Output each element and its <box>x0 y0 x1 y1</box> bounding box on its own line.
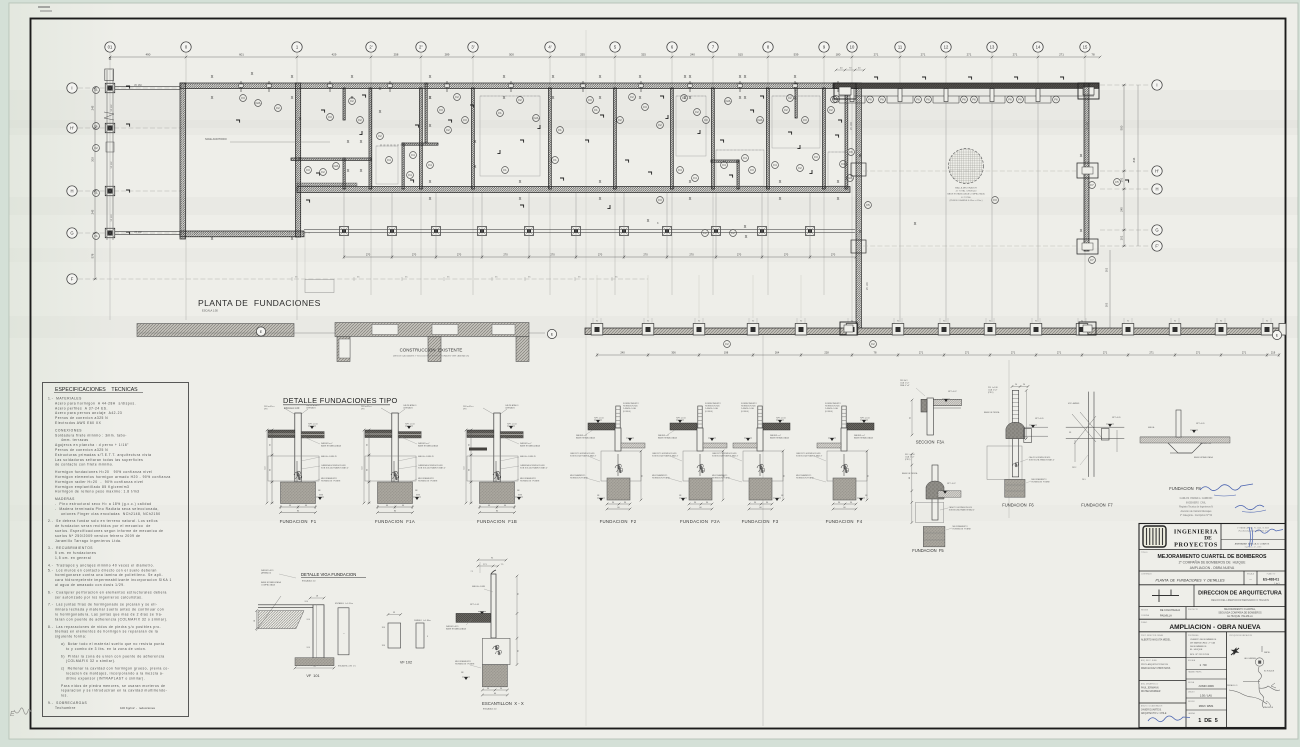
svg-text:NTN: NTN <box>319 495 324 497</box>
svg-text:270: 270 <box>366 253 371 257</box>
svg-text:(DOBLE): (DOBLE) <box>705 411 713 413</box>
svg-text:CANOSTO HORMIGON H20: CANOSTO HORMIGON H20 <box>796 452 820 455</box>
svg-text:BASE ESTABILIZADA: BASE ESTABILIZADA <box>261 581 282 584</box>
svg-text:SOB BOLSA TRAMOS MAX 4": SOB BOLSA TRAMOS MAX 4" <box>796 455 822 458</box>
svg-text:8.- Las reparaciones de nidos: 8.- Las reparaciones de nidos de piedra … <box>48 625 161 629</box>
svg-text:240: 240 <box>690 53 695 57</box>
svg-text:X: X <box>837 196 840 201</box>
svg-text:MEJORAMIENTO: MEJORAMIENTO <box>652 474 668 477</box>
svg-text:CERRADO: CERRADO <box>505 407 515 410</box>
svg-text:NPT -0.07: NPT -0.07 <box>947 483 956 485</box>
svg-text:b) Pintar la zona de union co: b) Pintar la zona de union con puente de… <box>61 654 165 658</box>
svg-text:CALZE ATADO: CALZE ATADO <box>505 404 519 407</box>
svg-text:ES-488-01: ES-488-01 <box>1263 578 1279 582</box>
svg-text:INGENIERO CIVIL: INGENIERO CIVIL <box>1186 502 1207 504</box>
svg-text:NPT+0.10: NPT+0.10 <box>308 424 318 426</box>
svg-text:VF 162: VF 162 <box>111 161 113 169</box>
svg-text:COMPACTADA: COMPACTADA <box>261 584 275 587</box>
svg-text:BASE DE PEDRA: BASE DE PEDRA <box>902 472 918 475</box>
svg-text:1* Categoria - Inscripcion N*: 1* Categoria - Inscripcion N* 52 <box>1180 514 1213 517</box>
svg-text:228: 228 <box>824 351 829 355</box>
svg-text:X: X <box>519 196 522 201</box>
svg-text:(PUEDE USARSE 0.05m x 4.3m.): (PUEDE USARSE 0.05m x 4.3m.) <box>949 199 982 202</box>
svg-text:CANOSTO HORMIGON H20: CANOSTO HORMIGON H20 <box>652 452 676 455</box>
svg-text:CONEXIONES: CONEXIONES <box>55 428 82 432</box>
svg-text:F4: F4 <box>408 173 412 177</box>
svg-text:X: X <box>1080 153 1083 158</box>
svg-text:271: 271 <box>965 351 970 355</box>
svg-text:DE BOMBEROS: DE BOMBEROS <box>1190 646 1207 648</box>
svg-text:(ARMADO): (ARMADO) <box>261 572 271 575</box>
svg-text:1* RAMA CAPITAL FL 2546 - N 4: 1* RAMA CAPITAL FL 2546 - N 4568 <box>1237 527 1269 530</box>
svg-text:F2: F2 <box>618 118 622 122</box>
svg-text:X: X <box>291 74 294 79</box>
svg-text:I: I <box>1156 83 1157 88</box>
svg-text:26.5: 26.5 <box>1082 479 1086 481</box>
svg-text:270: 270 <box>457 253 462 257</box>
svg-text:X: X <box>837 179 840 184</box>
svg-text:X: X <box>291 236 294 241</box>
svg-text:Techumbre: Techumbre <box>55 706 76 710</box>
svg-text:FUNDACION F5: FUNDACION F5 <box>912 548 944 553</box>
svg-text:F2: F2 <box>321 170 325 174</box>
svg-text:X: X <box>211 236 214 241</box>
svg-text:FUNDACION F1: FUNDACION F1 <box>280 519 317 524</box>
svg-text:PLANTA DE FUNDACIONES: PLANTA DE FUNDACIONES <box>198 298 321 308</box>
svg-text:hormigonarse contra una lamina: hormigonarse contra una lamina de poliet… <box>55 573 163 577</box>
svg-text:H': H' <box>70 126 74 131</box>
svg-text:F2: F2 <box>276 106 280 110</box>
svg-text:2': 2' <box>369 45 372 50</box>
svg-text:270: 270 <box>689 253 694 257</box>
svg-text:X: X <box>351 74 354 79</box>
svg-text:de contacto con filete minimo.: de contacto con filete minimo. <box>55 463 114 467</box>
svg-text:F6: F6 <box>972 98 976 102</box>
svg-text:F8: F8 <box>1069 432 1071 434</box>
svg-text:Hormigon emplantillado 85 Kg/c: Hormigon emplantillado 85 Kg/cem/m3 <box>55 485 129 489</box>
svg-text:ESCALA: ESCALA <box>1247 573 1255 576</box>
svg-text:blemas en elementos de hormigo: blemas en elementos de hormigon se repar… <box>55 630 158 634</box>
svg-text:F4: F4 <box>678 168 682 172</box>
svg-text:ESCALA 1:10: ESCALA 1:10 <box>302 580 316 583</box>
svg-text:4# TOTAL: 4# TOTAL <box>961 196 972 199</box>
svg-text:PLANO N*: PLANO N* <box>1267 573 1276 576</box>
svg-text:DIBUJO: DIBUJO <box>1188 692 1195 694</box>
svg-text:270: 270 <box>784 253 789 257</box>
svg-text:198: 198 <box>724 351 729 355</box>
svg-text:NPT+0.10: NPT+0.10 <box>860 418 870 420</box>
svg-text:HORMIGON POBRE: HORMIGON POBRE <box>652 478 670 480</box>
svg-text:BASE ESTABILIZADA: BASE ESTABILIZADA <box>446 628 467 631</box>
svg-text:DIRECCION DE ARQUITECTURA: DIRECCION DE ARQUITECTURA <box>1198 591 1282 597</box>
svg-text:F2: F2 <box>829 108 833 112</box>
svg-text:RADIER e=7: RADIER e=7 <box>658 434 669 437</box>
svg-text:X: X <box>745 234 748 239</box>
svg-text:BASE ESTABILIZADA: BASE ESTABILIZADA <box>418 445 439 448</box>
svg-text:Hormigon elementos hormigon ar: Hormigon elementos hormigon armado H20 -… <box>55 475 171 479</box>
svg-text:F2: F2 <box>630 95 634 99</box>
svg-text:F2: F2 <box>788 96 792 100</box>
svg-text:ARQ. SECC. ELAB.: ARQ. SECC. ELAB. <box>1141 659 1157 662</box>
svg-text:suelos. Especificaciones segun: suelos. Especificaciones segun informe d… <box>55 529 163 533</box>
svg-text:X: X <box>794 74 797 79</box>
svg-text:F1: F1 <box>94 124 98 128</box>
svg-text:78: 78 <box>1091 53 1095 57</box>
svg-text:DIMBEO L=1.80m: DIMBEO L=1.80m <box>414 620 431 622</box>
svg-text:SOB BOLSA TRAMOS MAX 4": SOB BOLSA TRAMOS MAX 4" <box>949 509 975 512</box>
svg-text:MALLA 4-08B-15: MALLA 4-08B-15 <box>418 455 435 458</box>
svg-text:5 cm. en fundaciones: 5 cm. en fundaciones <box>55 551 96 555</box>
svg-text:LAS CABRAS: LAS CABRAS <box>1244 657 1257 660</box>
svg-text:Acero para pernos anclaje A42: Acero para pernos anclaje A42-23 <box>55 411 122 415</box>
svg-text:TITULO: TITULO <box>1141 552 1148 554</box>
svg-text:F4: F4 <box>387 158 391 162</box>
svg-text:M12 AMBES: M12 AMBES <box>1068 402 1080 405</box>
svg-text:2'': 2'' <box>419 45 423 50</box>
svg-text:Ingenieria 22 - 2013: Ingenieria 22 - 2013 <box>1245 547 1261 549</box>
svg-text:X: X <box>599 196 602 201</box>
svg-text:HORMIGON POBRE: HORMIGON POBRE <box>418 481 438 483</box>
svg-text:271: 271 <box>1011 351 1016 355</box>
svg-text:264: 264 <box>775 351 780 355</box>
svg-text:H: H <box>70 189 73 194</box>
svg-text:X: X <box>360 168 363 173</box>
svg-text:DETALLE VIGA FUNDACION: DETALLE VIGA FUNDACION <box>301 572 356 577</box>
svg-text:F2: F2 <box>725 342 729 346</box>
svg-text:8: 8 <box>427 636 428 638</box>
svg-text:VF 103: VF 103 <box>1086 122 1089 130</box>
svg-text:F2: F2 <box>703 231 707 235</box>
svg-text:F2: F2 <box>94 146 98 150</box>
svg-text:F4: F4 <box>773 163 777 167</box>
svg-text:(PRO): (PRO) <box>988 392 994 394</box>
svg-text:AMPLIACION - OBRA NUEVA: AMPLIACION - OBRA NUEVA <box>1169 624 1260 631</box>
svg-text:X: X <box>914 221 917 226</box>
svg-text:(Fax) Antofagasta(s) Telf 204: (Fax) Antofagasta(s) Telf 2045 321 <box>1238 530 1268 533</box>
svg-text:X: X <box>599 74 602 79</box>
svg-text:F1: F1 <box>503 168 507 172</box>
svg-text:F2: F2 <box>871 342 875 346</box>
svg-text:lo hormigonadura. Las juntas q: lo hormigonadura. Las juntas que mas de … <box>55 613 163 617</box>
svg-text:- Madera terminada Pino Radia: - Madera terminada Pino Radiata seca sel… <box>55 507 159 511</box>
svg-text:F1: F1 <box>94 88 98 92</box>
svg-text:271: 271 <box>1059 53 1064 57</box>
svg-text:F2A: F2A <box>334 164 339 168</box>
svg-text:Hormigon de relleno peso maxim: Hormigon de relleno peso maximo: 1.8 t/m… <box>55 490 139 494</box>
svg-text:X: X <box>519 179 522 184</box>
svg-text:F4: F4 <box>722 163 726 167</box>
svg-text:I: I <box>71 86 72 91</box>
svg-text:3': 3' <box>471 45 474 50</box>
svg-text:X: X <box>291 95 294 100</box>
svg-text:CONSTRUCCION EXISTENTE: CONSTRUCCION EXISTENTE <box>400 348 463 353</box>
svg-text:ESCALA: ESCALA <box>1188 659 1196 662</box>
svg-text:F2A: F2A <box>256 101 261 105</box>
svg-text:uniones Finger clas encoladas: uniones Finger clas encoladas NCh2148, N… <box>61 512 161 516</box>
svg-text:E: E <box>10 711 15 718</box>
svg-text:TAMANO PAPEL: TAMANO PAPEL <box>1188 671 1202 674</box>
svg-text:FUNDACION F7: FUNDACION F7 <box>1081 503 1113 508</box>
svg-text:502: 502 <box>1105 267 1109 272</box>
svg-text:X: X <box>689 179 692 184</box>
svg-text:X: X <box>794 95 797 100</box>
svg-text:F3: F3 <box>241 96 245 100</box>
svg-text:ARQ. DESARROLLO: ARQ. DESARROLLO <box>1141 683 1159 686</box>
svg-text:F3: F3 <box>643 105 647 109</box>
svg-text:(PRO): (PRO) <box>905 459 911 461</box>
svg-text:PAUL JERMANN: PAUL JERMANN <box>1141 687 1159 690</box>
svg-text:DETALLE FUNDACIONES TIPO: DETALLE FUNDACIONES TIPO <box>283 396 398 405</box>
svg-text:CALZE ATADO: CALZE ATADO <box>403 404 417 407</box>
svg-text:RADIER e=8: RADIER e=8 <box>1200 442 1211 445</box>
svg-text:NPT+0.05: NPT+0.05 <box>470 604 480 606</box>
svg-text:F1: F1 <box>558 128 562 132</box>
svg-text:MALLA: MALLA <box>1148 426 1155 429</box>
svg-text:15: 15 <box>1083 45 1088 50</box>
svg-text:ESCALA 1:10: ESCALA 1:10 <box>483 708 497 711</box>
svg-text:VF 163: VF 163 <box>111 214 113 222</box>
svg-text:F6: F6 <box>1018 98 1022 102</box>
svg-text:to y combo de 3 lbs. en la zon: to y combo de 3 lbs. en la zona de union… <box>66 647 147 651</box>
svg-text:Atencion de Calculo Mensajes: Atencion de Calculo Mensajes <box>1181 510 1213 513</box>
svg-text:HORMIGON POBRE: HORMIGON POBRE <box>321 481 341 483</box>
svg-text:X: X <box>1080 228 1083 233</box>
svg-text:F4: F4 <box>693 176 697 180</box>
svg-text:F2: F2 <box>378 134 382 138</box>
svg-text:MEJORAMIENTO: MEJORAMIENTO <box>520 477 537 480</box>
svg-text:2+8A/20+2+8A: 2+8A/20+2+8A <box>741 407 754 410</box>
svg-text:X: X <box>211 74 214 79</box>
svg-text:F3: F3 <box>814 155 818 159</box>
svg-text:F3: F3 <box>803 118 807 122</box>
svg-text:2+8A/20+2+8A: 2+8A/20+2+8A <box>705 407 718 410</box>
svg-text:ARQUITECTO U. CHILE: ARQUITECTO U. CHILE <box>1141 712 1167 715</box>
svg-text:NPT+0.05: NPT+0.05 <box>1196 423 1205 425</box>
svg-text:1,5 cm. en general: 1,5 cm. en general <box>55 556 91 560</box>
svg-text:NAVE AUDITORIO: NAVE AUDITORIO <box>205 137 227 141</box>
svg-text:F2: F2 <box>798 166 802 170</box>
svg-text:(DOBLE): (DOBLE) <box>741 411 749 413</box>
svg-text:F6: F6 <box>962 98 966 102</box>
svg-text:CUA 2"x2": CUA 2"x2" <box>905 456 915 459</box>
svg-text:245: 245 <box>1120 207 1124 212</box>
svg-text:F4: F4 <box>428 163 432 167</box>
svg-text:ser autorizado por los ingenie: ser autorizado por los ingenieros calcul… <box>55 595 143 599</box>
svg-text:F6: F6 <box>868 98 872 102</box>
svg-text:X: X <box>360 139 363 144</box>
svg-text:G: G <box>70 231 73 236</box>
svg-text:F6: F6 <box>926 98 930 102</box>
svg-text:01: 01 <box>108 45 113 50</box>
svg-text:X: X <box>379 86 382 91</box>
svg-text:240: 240 <box>620 351 625 355</box>
svg-text:SOB SOLDA TRAMOS MAX 4": SOB SOLDA TRAMOS MAX 4" <box>520 467 548 470</box>
svg-text:BASE ESTABILIZADA: BASE ESTABILIZADA <box>520 445 541 448</box>
svg-text:F3: F3 <box>439 108 443 112</box>
svg-text:271: 271 <box>1057 351 1062 355</box>
svg-text:F1: F1 <box>498 111 502 115</box>
svg-text:MEJORAMIENTO: MEJORAMIENTO <box>1031 478 1047 481</box>
svg-text:270: 270 <box>412 253 417 257</box>
svg-text:601: 601 <box>239 53 244 57</box>
svg-text:F: F <box>71 277 74 282</box>
svg-text:HORMIGON POBRE: HORMIGON POBRE <box>520 481 540 483</box>
svg-text:18: 18 <box>254 620 256 622</box>
svg-text:F2A: F2A <box>848 176 853 180</box>
svg-text:289: 289 <box>445 53 450 57</box>
svg-text:NPT+0.10: NPT+0.10 <box>507 424 517 426</box>
svg-text:X: X <box>429 95 432 100</box>
svg-text:515: 515 <box>738 53 743 57</box>
svg-text:306: 306 <box>671 351 676 355</box>
svg-text:Estructuras primadas s/T.E.T.T: Estructuras primadas s/T.E.T.T. arquitec… <box>55 453 151 457</box>
svg-text:BASE ESTABILIZADA: BASE ESTABILIZADA <box>658 437 678 440</box>
svg-text:271: 271 <box>921 53 926 57</box>
svg-text:X: X <box>429 74 432 79</box>
svg-text:SOB SOLDA TRAMOS MAX 4": SOB SOLDA TRAMOS MAX 4" <box>418 467 446 470</box>
svg-text:H': H' <box>1155 169 1159 174</box>
svg-text:X: X <box>429 196 432 201</box>
svg-text:F3: F3 <box>750 168 754 172</box>
svg-text:suelos N* 250/2009 version feb: suelos N* 250/2009 version febrero 2009 … <box>55 534 141 538</box>
svg-text:(DOBLE): (DOBLE) <box>623 411 631 413</box>
svg-text:X: X <box>779 196 782 201</box>
svg-text:245: 245 <box>91 209 95 214</box>
svg-text:X: X <box>744 95 747 100</box>
svg-text:F2A: F2A <box>534 116 539 120</box>
svg-text:X: X <box>429 123 432 128</box>
svg-text:219: 219 <box>1271 351 1276 355</box>
svg-text:MEJORAMIENTO: MEJORAMIENTO <box>321 477 338 480</box>
svg-text:PLANTA DE FUNDACIONES Y DE: PLANTA DE FUNDACIONES Y DETALLES <box>1156 579 1226 583</box>
svg-text:G: G <box>1155 228 1158 233</box>
svg-text:ESPECIFICACIONES TECNICAS: ESPECIFICACIONES TECNICAS <box>55 387 138 393</box>
svg-text:PALMILLA: PALMILLA <box>1160 615 1172 618</box>
svg-text:X: X <box>744 74 747 79</box>
svg-text:3.- RECUBRIMIENTOS: 3.- RECUBRIMIENTOS <box>48 546 93 550</box>
svg-text:CUA 2"x2": CUA 2"x2" <box>988 389 998 392</box>
svg-text:F2A: F2A <box>726 99 731 103</box>
svg-text:X: X <box>647 218 650 223</box>
svg-text:VF 162: VF 162 <box>111 104 113 112</box>
svg-text:NTN: NTN <box>518 495 523 497</box>
svg-text:CALZE ATADO: CALZE ATADO <box>306 404 320 407</box>
svg-text:FUNDACION F8: FUNDACION F8 <box>1169 486 1201 491</box>
svg-text:1 de 5: 1 de 5 <box>1274 583 1280 585</box>
svg-text:NPT+0.10: NPT+0.10 <box>776 418 786 420</box>
svg-text:2* COMPAÑIA DE BOMBEROS DE HU: 2* COMPAÑIA DE BOMBEROS DE HUIQUE <box>1179 560 1247 565</box>
svg-text:Hormigon radier H=20 - 90% c: Hormigon radier H=20 - 90% confianza niv… <box>55 480 144 484</box>
svg-text:FUNDACION F1A: FUNDACION F1A <box>375 519 415 524</box>
svg-text:7.5: 7.5 <box>471 571 474 573</box>
svg-text:Soldadura filete minimo : 3mm.: Soldadura filete minimo : 3mm. tabo- <box>55 433 127 437</box>
svg-text:RADIER e=7: RADIER e=7 <box>854 434 865 437</box>
svg-text:270: 270 <box>503 253 508 257</box>
svg-text:F6: F6 <box>1008 98 1012 102</box>
svg-text:100 Kg/m2 - reducciones: 100 Kg/m2 - reducciones <box>120 706 156 710</box>
svg-text:CONTENIDO: CONTENIDO <box>1141 574 1152 576</box>
svg-text:HORMIGON POBRE: HORMIGON POBRE <box>570 478 588 480</box>
svg-text:PROY. DIRECTOR OBRAS: PROY. DIRECTOR OBRAS <box>1141 634 1164 637</box>
svg-text:539: 539 <box>794 53 799 57</box>
svg-text:DE COLCHAGUA: DE COLCHAGUA <box>1160 609 1180 612</box>
svg-text:429: 429 <box>332 53 337 57</box>
svg-text:846: 846 <box>1132 157 1136 162</box>
svg-text:EL HUIQUE: EL HUIQUE <box>1190 649 1203 651</box>
svg-text:20: 20 <box>1023 384 1025 386</box>
svg-text:EL HUIQUE PALMILLA: EL HUIQUE PALMILLA <box>1227 615 1253 618</box>
svg-text:7.5: 7.5 <box>501 564 504 566</box>
svg-text:1.- MATERIALES: 1.- MATERIALES <box>48 397 82 401</box>
svg-text:c) Rellenar la cavidad con ho: c) Rellenar la cavidad con hormigon grue… <box>61 667 169 671</box>
svg-text:PROYECTO: PROYECTO <box>1188 609 1199 611</box>
svg-text:CARLOS PARRA G. CARRION: CARLOS PARRA G. CARRION <box>1180 497 1213 500</box>
svg-text:60: 60 <box>909 477 911 479</box>
svg-text:13: 13 <box>990 45 995 50</box>
svg-text:X: X <box>552 95 555 100</box>
svg-text:F2: F2 <box>658 123 662 127</box>
svg-text:(DOBLE): (DOBLE) <box>825 411 833 413</box>
svg-text:X: X <box>639 95 642 100</box>
svg-text:Para nidos de piedra menores,: Para nidos de piedra menores, se usaran … <box>61 684 166 688</box>
svg-text:Electrodos AWS E60 XX: Electrodos AWS E60 XX <box>55 421 102 425</box>
svg-text:X: X <box>779 179 782 184</box>
svg-text:180: 180 <box>836 53 841 57</box>
svg-text:MALLA 4-08B-15: MALLA 4-08B-15 <box>520 455 537 458</box>
svg-text:F2: F2 <box>518 98 522 102</box>
svg-text:MALLA 4-08B: MALLA 4-08B <box>472 585 486 588</box>
svg-text:271: 271 <box>919 351 924 355</box>
svg-text:RICHELSPARNER: RICHELSPARNER <box>1141 690 1161 693</box>
svg-text:F6: F6 <box>916 98 920 102</box>
svg-text:NPT+0.05: NPT+0.05 <box>1035 418 1044 420</box>
svg-text:F2: F2 <box>784 108 788 112</box>
svg-text:1 DE 5: 1 DE 5 <box>1198 718 1217 724</box>
svg-text:F2: F2 <box>731 231 735 235</box>
svg-text:F2: F2 <box>455 95 459 99</box>
svg-text:NTN: NTN <box>416 495 421 497</box>
svg-text:FUNDACION F3: FUNDACION F3 <box>742 519 779 524</box>
svg-text:14: 14 <box>1036 45 1041 50</box>
svg-text:5.- Los muros en contacto dir: 5.- Los muros en contacto directo con el… <box>48 568 157 572</box>
svg-text:2+8A/20+2+8A: 2+8A/20+2+8A <box>825 407 838 410</box>
svg-text:ESCANTILLON X - X: ESCANTILLON X - X <box>482 701 524 706</box>
svg-text:RADIER AC9: RADIER AC9 <box>261 569 274 572</box>
svg-text:FUNDACION F6: FUNDACION F6 <box>1002 503 1034 508</box>
svg-text:F': F' <box>1155 244 1159 249</box>
svg-text:REGION DEL LIBERTADOR BERNARDO: REGION DEL LIBERTADOR BERNARDO O HIGGINS <box>1211 599 1269 602</box>
svg-text:NPT+0.10: NPT+0.10 <box>594 418 604 420</box>
svg-text:SOB SOLTA TRAMOS MAX 4": SOB SOLTA TRAMOS MAX 4" <box>1029 459 1055 462</box>
svg-text:AMPLIACION - OBRA NUEVA: AMPLIACION - OBRA NUEVA <box>1190 566 1235 570</box>
svg-text:6.- Cualquier perforacion en: 6.- Cualquier perforacion en elementos e… <box>48 590 167 594</box>
svg-text:F2: F2 <box>682 96 686 100</box>
svg-text:Agujeros en plancha : d perno: Agujeros en plancha : d perno + 1/16" <box>55 443 129 447</box>
svg-text:RADIER AC9: RADIER AC9 <box>446 625 459 628</box>
svg-text:BASE ESTABILIZADA: BASE ESTABILIZADA <box>576 437 596 440</box>
svg-text:FUNDACION F4: FUNDACION F4 <box>826 519 863 524</box>
svg-text:MEJORAMIENTO: MEJORAMIENTO <box>570 474 586 477</box>
svg-text:MFM / WMS: MFM / WMS <box>1199 704 1214 708</box>
svg-text:CALZO HORMIGON H20: CALZO HORMIGON H20 <box>1029 456 1050 459</box>
svg-text:F1: F1 <box>94 191 98 195</box>
svg-text:255: 255 <box>580 53 585 57</box>
svg-text:4# TOTAL DR09Q20: 4# TOTAL DR09Q20 <box>956 190 977 193</box>
svg-text:F4: F4 <box>411 153 415 157</box>
svg-text:X: X <box>689 196 692 201</box>
svg-text:ROL N* 212-17010: ROL N* 212-17010 <box>1190 654 1210 656</box>
svg-text:10: 10 <box>850 45 855 50</box>
